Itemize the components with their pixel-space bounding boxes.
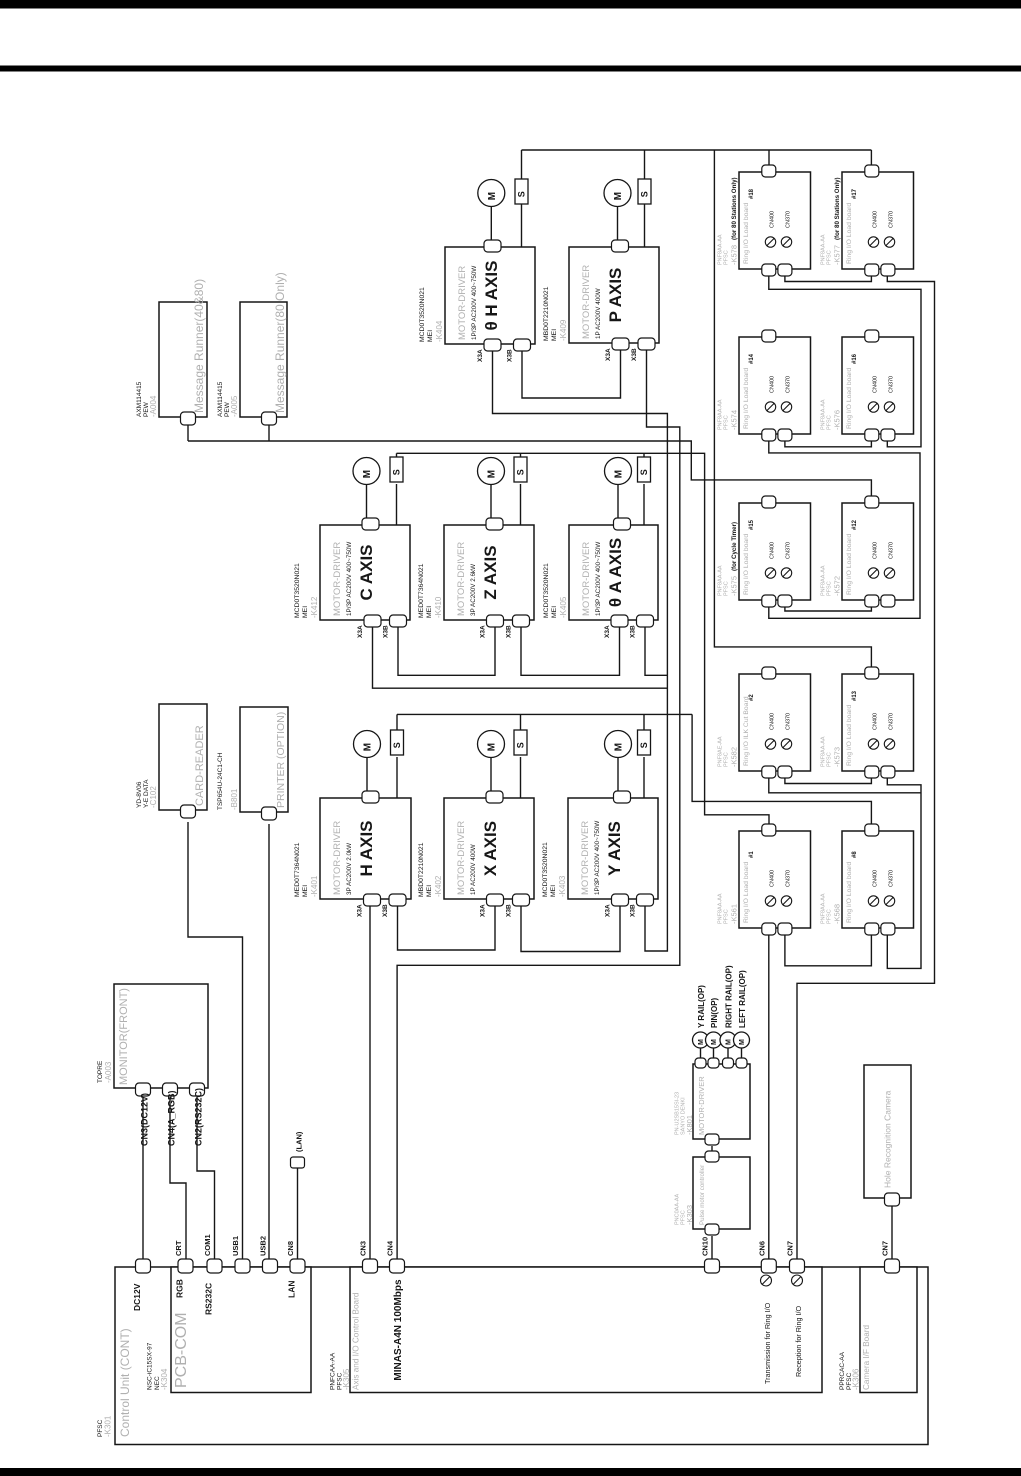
- wire: S to driver K405: [643, 484, 645, 525]
- svg-text:#2: #2: [749, 694, 755, 701]
- card reader box C102: [159, 704, 207, 810]
- svg-text:X3A: X3A: [477, 349, 484, 362]
- svg-text:CN370: CN370: [889, 376, 895, 393]
- svg-text:RS232C: RS232C: [204, 1283, 214, 1315]
- wire: S to driver K410: [520, 484, 522, 525]
- svg-text:DC12V: DC12V: [132, 1283, 142, 1311]
- svg-text:-K304: -K304: [160, 1368, 169, 1390]
- wire: pulse motor controller to CN10: [711, 1236, 713, 1260]
- svg-text:MOTOR-DRIVER: MOTOR-DRIVER: [697, 1076, 706, 1135]
- svg-text:M: M: [487, 192, 498, 200]
- wire: ring board #18 CN300 to #17 CN400 link: [785, 274, 872, 282]
- control unit (CONT) K301: [115, 1267, 928, 1445]
- ring I/O load board #18 (K578): [739, 172, 811, 269]
- svg-text:#13: #13: [852, 690, 858, 701]
- connector USB1: [235, 1259, 250, 1273]
- encoder S of -K401: [391, 730, 404, 755]
- svg-text:MED0T7364N021: MED0T7364N021: [418, 563, 425, 618]
- svg-text:CN370: CN370: [889, 713, 895, 730]
- svg-text:Message Runner(40&80): Message Runner(40&80): [192, 279, 206, 413]
- svg-text:Ring I/O Load board: Ring I/O Load board: [743, 368, 750, 429]
- wire: ring board #14 CN300 to #16 CN400 link: [785, 439, 872, 447]
- svg-text:MOTOR-DRIVER: MOTOR-DRIVER: [456, 821, 467, 895]
- motor-driver K401 (H axis): [320, 798, 411, 899]
- connector CN10: [705, 1259, 720, 1273]
- ring I/O load board #1 (K561): [739, 831, 811, 928]
- svg-text:C AXIS: C AXIS: [357, 544, 376, 600]
- motor-driver K412 (C axis): [320, 525, 410, 620]
- svg-text:-K402: -K402: [434, 875, 443, 897]
- wire: S to driver K404: [521, 204, 523, 247]
- svg-text:PPRCAC-AA: PPRCAC-AA: [839, 1351, 846, 1390]
- pulse motor controller K303: [693, 1157, 750, 1229]
- encoder S of -K409: [638, 179, 651, 204]
- wire: ring board #17 CN300 to CN7 reception line (riser x934.5): [797, 274, 935, 1260]
- motor M of -K403: [605, 731, 632, 758]
- wire: S to driver K401: [396, 757, 398, 798]
- rail motor PIN(OP): [706, 1032, 722, 1048]
- encoder S of -K404: [515, 179, 528, 204]
- printer box B801: [240, 707, 288, 812]
- svg-text:S: S: [516, 742, 526, 748]
- svg-text:PRINTER (OPTION): PRINTER (OPTION): [275, 712, 287, 808]
- rail motor RIGHT RAIL(OP): [720, 1032, 736, 1048]
- svg-text:X3A: X3A: [605, 348, 612, 361]
- svg-text:CARD-READER: CARD-READER: [194, 725, 206, 806]
- wire: hole recognition camera to camera I/F CN7: [891, 1204, 893, 1260]
- wire: motor M to driver K412: [366, 484, 368, 521]
- svg-text:MOTOR-DRIVER: MOTOR-DRIVER: [456, 542, 467, 616]
- screw terminal CN400 of -K572: [868, 568, 878, 578]
- svg-text:-K577: -K577: [833, 245, 842, 265]
- svg-text:Ring I/O Load board: Ring I/O Load board: [743, 862, 750, 923]
- wire: K404 X3A to K403 X3B network link (riser x667): [493, 350, 668, 951]
- wire: motor M to driver K402: [490, 757, 492, 794]
- camera I/F board K306: [860, 1267, 917, 1393]
- svg-text:#8: #8: [852, 851, 858, 858]
- svg-text:MEI: MEI: [550, 885, 557, 897]
- motor M of -K412: [353, 458, 380, 485]
- svg-text:PNFCAA-AA: PNFCAA-AA: [330, 1352, 337, 1390]
- rail motor Y RAIL(OP): [693, 1032, 709, 1048]
- ring I/O load board #14 (K574): [739, 337, 811, 434]
- svg-text:X3B: X3B: [630, 904, 637, 917]
- svg-text:Z AXIS: Z AXIS: [481, 545, 500, 599]
- svg-text:-K561: -K561: [730, 904, 739, 924]
- wire: S to driver K403: [643, 757, 645, 798]
- svg-text:CN4: CN4: [386, 1240, 395, 1256]
- encoder S of -K410: [514, 457, 527, 482]
- wire: ring board #1 CN400 to CN6 transmission line: [768, 935, 770, 1261]
- svg-text:Message Runner(80 Only): Message Runner(80 Only): [273, 272, 287, 413]
- connector CN7 camera: [885, 1259, 900, 1273]
- svg-text:X3B: X3B: [383, 625, 390, 638]
- svg-text:CN400: CN400: [770, 542, 776, 559]
- svg-text:CN400: CN400: [873, 713, 879, 730]
- svg-text:CN400: CN400: [873, 542, 879, 559]
- motor-driver K409 (P axis): [569, 247, 659, 343]
- message runner box A004: [159, 302, 207, 417]
- svg-text:H AXIS: H AXIS: [357, 820, 376, 876]
- svg-text:CN2(RS232C): CN2(RS232C): [194, 1088, 204, 1146]
- wire: ILK board CN300 to #13 CN400 link: [785, 777, 872, 784]
- wire: S to driver K412: [396, 484, 398, 525]
- svg-text:1P AC200V 400W: 1P AC200V 400W: [595, 288, 602, 339]
- svg-text:θ H AXIS: θ H AXIS: [482, 261, 501, 331]
- svg-text:M: M: [614, 743, 625, 751]
- svg-text:MOTOR-DRIVER: MOTOR-DRIVER: [581, 542, 592, 616]
- svg-text:X3A: X3A: [480, 904, 487, 917]
- svg-text:Ring I/O Load board: Ring I/O Load board: [846, 534, 853, 595]
- svg-text:LEFT RAIL(OP): LEFT RAIL(OP): [738, 970, 747, 1028]
- ring I/O load board #13 (K573): [842, 674, 914, 771]
- svg-text:-K582: -K582: [730, 747, 739, 767]
- ring I/O load board #15 (K575): [739, 503, 811, 600]
- screw terminal CN370 of -K574: [781, 402, 791, 412]
- svg-text:M: M: [698, 1039, 705, 1045]
- connector DC12V: [136, 1259, 151, 1273]
- svg-text:TSP654U-24C1-CH: TSP654U-24C1-CH: [217, 752, 224, 810]
- svg-text:1P/3P AC200V 400~750W: 1P/3P AC200V 400~750W: [471, 266, 478, 340]
- svg-text:-K573: -K573: [833, 747, 842, 767]
- motor-driver K403 (Y axis): [568, 798, 658, 899]
- wire: motor M to driver K401: [366, 757, 368, 794]
- screw terminal CN400 of -K561: [765, 896, 775, 906]
- svg-text:Ring I/O Load board: Ring I/O Load board: [846, 705, 853, 766]
- wire: K404 X3B to K409 X3A network link: [522, 350, 621, 398]
- svg-text:AXM114415: AXM114415: [136, 381, 143, 417]
- svg-text:CN3(DC12V): CN3(DC12V): [140, 1093, 150, 1146]
- svg-text:S: S: [516, 469, 526, 475]
- svg-text:MEI: MEI: [427, 330, 434, 342]
- screw terminal CN370 of -K578: [781, 237, 791, 247]
- svg-text:RIGHT RAIL(OP): RIGHT RAIL(OP): [725, 965, 734, 1028]
- screw terminal CN400 of -K577: [868, 237, 878, 247]
- wire: printer to USB2: [268, 824, 270, 1260]
- wire: K410 X3B to K405 X3A network link: [521, 625, 620, 675]
- svg-text:CN400: CN400: [873, 376, 879, 393]
- svg-text:USB1: USB1: [231, 1236, 240, 1256]
- svg-text:-K410: -K410: [434, 596, 443, 618]
- screw terminal: reception for ring I/O: [792, 1275, 803, 1286]
- svg-text:MED0T7364N021: MED0T7364N021: [294, 842, 301, 897]
- motor-driver K405 (theta A axis): [569, 525, 658, 620]
- svg-text:Y RAIL(OP): Y RAIL(OP): [697, 985, 706, 1028]
- ring I/O load board #12 (K572): [842, 503, 914, 600]
- motor M of -K404: [478, 180, 505, 207]
- axis and I/O control board K305: [350, 1267, 822, 1393]
- svg-text:MOTOR-DRIVER: MOTOR-DRIVER: [332, 542, 343, 616]
- svg-text:-K301: -K301: [104, 1415, 113, 1437]
- svg-text:PIN(OP): PIN(OP): [710, 997, 719, 1028]
- svg-text:MEI: MEI: [302, 885, 309, 897]
- svg-text:USB2: USB2: [259, 1236, 268, 1256]
- svg-text:-K403: -K403: [558, 875, 567, 897]
- svg-text:Reception for Ring I/O: Reception for Ring I/O: [794, 1305, 803, 1377]
- screw terminal CN400 of -K568: [868, 896, 878, 906]
- svg-text:MEI: MEI: [551, 329, 558, 341]
- svg-text:-K409: -K409: [559, 319, 568, 341]
- svg-text:-K574: -K574: [730, 410, 739, 430]
- wire: monitor CN2 to COM1: [197, 1097, 215, 1260]
- svg-text:CN370: CN370: [889, 542, 895, 559]
- svg-text:-K568: -K568: [833, 904, 842, 924]
- wire: monitor CN3 to DC12V: [142, 1097, 144, 1260]
- motor-driver K402 (X axis): [444, 798, 534, 899]
- svg-text:-K405: -K405: [559, 596, 568, 618]
- svg-text:CN3: CN3: [359, 1241, 368, 1256]
- wire: rail motor LEFT RAIL to pulse driver: [741, 1048, 743, 1060]
- encoder S of -K402: [514, 730, 527, 755]
- svg-text:CN400: CN400: [873, 870, 879, 887]
- svg-text:#17: #17: [852, 188, 858, 199]
- svg-text:-K404: -K404: [435, 320, 444, 342]
- screw terminal CN370 of -K582: [781, 739, 791, 749]
- svg-text:-K412: -K412: [310, 596, 319, 618]
- svg-text:CRT: CRT: [174, 1240, 183, 1256]
- svg-text:Control Unit (CONT): Control Unit (CONT): [118, 1328, 132, 1437]
- svg-text:-K801: -K801: [685, 1115, 694, 1135]
- svg-text:CN6: CN6: [757, 1241, 766, 1256]
- svg-text:S: S: [639, 742, 649, 748]
- svg-text:(for Cycle Timer): (for Cycle Timer): [731, 522, 738, 571]
- svg-text:S: S: [392, 742, 402, 748]
- svg-text:3P AC200V 2.0kW: 3P AC200V 2.0kW: [346, 843, 353, 895]
- wire: motor M to driver K410: [490, 484, 492, 521]
- motor-driver K404 (theta H axis): [445, 247, 535, 344]
- screw terminal CN400 of -K582: [765, 739, 775, 749]
- connector CRT / RGB: [178, 1259, 193, 1273]
- svg-text:-K578: -K578: [730, 245, 739, 265]
- svg-text:CN370: CN370: [786, 211, 792, 228]
- LAN plug: [291, 1157, 305, 1168]
- svg-text:Camera I/F Board: Camera I/F Board: [862, 1324, 871, 1390]
- svg-text:Hole Recognition Camera: Hole Recognition Camera: [883, 1090, 893, 1188]
- encoder S of -K405: [638, 457, 651, 482]
- screw terminal CN400 of -K573: [868, 739, 878, 749]
- svg-text:-K303: -K303: [685, 1205, 694, 1225]
- motor M of -K405: [605, 458, 632, 485]
- svg-text:CN7: CN7: [881, 1241, 890, 1256]
- svg-text:MEI: MEI: [551, 606, 558, 618]
- motor M of -K401: [354, 731, 381, 758]
- svg-text:1P/3P AC200V 400~750W: 1P/3P AC200V 400~750W: [346, 542, 353, 616]
- svg-text:CN370: CN370: [786, 542, 792, 559]
- wire: row3 encoder bus (S of K401/K402/K403) to ring board #8 feed: [396, 714, 398, 732]
- svg-text:#14: #14: [749, 353, 755, 364]
- svg-text:#12: #12: [852, 519, 858, 530]
- encoder S of -K403: [638, 730, 651, 755]
- connector CN4: [390, 1259, 405, 1273]
- svg-text:MCD0T3520N021: MCD0T3520N021: [294, 563, 301, 618]
- connector COM1 / RS232C: [207, 1259, 222, 1273]
- svg-text:AXM114415: AXM114415: [217, 381, 224, 417]
- svg-text:X3B: X3B: [382, 904, 389, 917]
- svg-text:P AXIS: P AXIS: [606, 268, 625, 323]
- svg-text:CN370: CN370: [786, 376, 792, 393]
- svg-text:-K305: -K305: [342, 1368, 351, 1390]
- wire: ring board #1 CN300 to #8 CN400 link: [785, 935, 872, 966]
- wire: rail motor PIN to pulse driver: [713, 1048, 715, 1060]
- svg-text:X3B: X3B: [506, 625, 513, 638]
- svg-text:Transmission for Ring I/O: Transmission for Ring I/O: [763, 1302, 772, 1384]
- screw terminal: transmission for ring I/O: [761, 1275, 772, 1286]
- svg-text:-K572: -K572: [833, 576, 842, 596]
- rail motor LEFT RAIL(OP): [734, 1032, 750, 1048]
- svg-text:M: M: [711, 1039, 718, 1045]
- connector CN3: [363, 1259, 378, 1273]
- motor M of -K410: [478, 458, 505, 485]
- svg-text:X3B: X3B: [631, 348, 638, 361]
- svg-text:(LAN): (LAN): [295, 1131, 304, 1152]
- svg-text:M: M: [487, 743, 498, 751]
- svg-text:1P AC200V 400W: 1P AC200V 400W: [470, 844, 477, 895]
- svg-text:Axis and I/O Control Board: Axis and I/O Control Board: [352, 1292, 361, 1390]
- svg-text:X3B: X3B: [506, 904, 513, 917]
- ring I/O load board #8 (K568): [842, 831, 914, 928]
- svg-text:YD-8V06: YD-8V06: [136, 781, 143, 808]
- svg-text:MCD0T3520N021: MCD0T3520N021: [542, 842, 549, 897]
- ring I/O load board #16 (K576): [842, 337, 914, 434]
- svg-text:-C102: -C102: [149, 786, 158, 808]
- svg-text:MOTOR-DRIVER: MOTOR-DRIVER: [580, 821, 591, 895]
- screw terminal CN370 of -K561: [781, 896, 791, 906]
- svg-text:CN10: CN10: [701, 1237, 710, 1256]
- svg-text:MONITOR(FRONT): MONITOR(FRONT): [118, 988, 130, 1085]
- monitor (front) box A003: [114, 984, 208, 1088]
- screw terminal CN400 of -K575: [765, 568, 775, 578]
- wire: motor M to driver K405: [617, 484, 619, 521]
- wire: message runner bus to ring board #12 feed: [187, 421, 189, 441]
- wire: pulse motor driver to pulse motor controller: [711, 1146, 713, 1152]
- wire: motor M to driver K404: [490, 206, 492, 243]
- svg-text:-B801: -B801: [230, 788, 239, 810]
- svg-text:MEI: MEI: [426, 606, 433, 618]
- svg-text:RGB: RGB: [175, 1279, 185, 1298]
- wire: S to driver K409: [644, 204, 646, 247]
- svg-text:X3A: X3A: [605, 904, 612, 917]
- svg-text:CN400: CN400: [873, 211, 879, 228]
- wire: motor M to driver K409: [617, 206, 619, 243]
- svg-text:M: M: [726, 1039, 733, 1045]
- wire: K402 X3B to K403 X3A network link: [521, 905, 620, 952]
- connector CN6: [761, 1259, 776, 1273]
- svg-text:X3A: X3A: [604, 625, 611, 638]
- wire: rail motor RIGHT RAIL to pulse driver: [727, 1048, 729, 1060]
- svg-text:CN400: CN400: [770, 713, 776, 730]
- svg-text:X3B: X3B: [507, 349, 514, 362]
- wire: K401 X3A to CN3: [369, 905, 371, 1260]
- svg-text:-A005: -A005: [230, 395, 239, 417]
- screw terminal CN400 of -K576: [868, 402, 878, 412]
- wire: K409 X3B to CN4 riser (x680): [397, 350, 680, 1260]
- svg-text:-A004: -A004: [149, 395, 158, 417]
- svg-text:MOTOR-DRIVER: MOTOR-DRIVER: [332, 821, 343, 895]
- connector USB2: [263, 1259, 278, 1273]
- wire: ring board #18 CN400 to #16 CN300 link (riser x921): [769, 274, 921, 447]
- svg-text:M: M: [739, 1039, 746, 1045]
- svg-text:S: S: [392, 469, 402, 475]
- svg-text:#15: #15: [749, 519, 755, 530]
- svg-text:CN400: CN400: [770, 211, 776, 228]
- svg-text:#18: #18: [749, 188, 755, 199]
- svg-text:M: M: [362, 470, 373, 478]
- svg-text:S: S: [517, 191, 527, 197]
- svg-text:Y AXIS: Y AXIS: [605, 821, 624, 876]
- svg-text:MBD0T2210N021: MBD0T2210N021: [418, 842, 425, 897]
- page footer bar: [0, 1468, 1021, 1476]
- svg-text:M: M: [363, 743, 374, 751]
- svg-text:CN370: CN370: [786, 713, 792, 730]
- wire: row1 encoder bus (S of K404/K409) to ring board #13 feed: [521, 150, 523, 179]
- svg-text:#1: #1: [749, 851, 755, 858]
- svg-text:3P AC200V 2.6kW: 3P AC200V 2.6kW: [470, 564, 477, 616]
- wire: LAN plug to CN8: [297, 1168, 299, 1260]
- svg-text:CN4(A_RGB): CN4(A_RGB): [167, 1090, 177, 1146]
- page header rule: [0, 66, 1021, 72]
- svg-text:X3A: X3A: [357, 904, 364, 917]
- svg-text:S: S: [639, 469, 649, 475]
- svg-text:1P/3P AC200V 400~750W: 1P/3P AC200V 400~750W: [595, 542, 602, 616]
- page header bar: [0, 0, 1021, 9]
- screw terminal CN370 of -K572: [884, 568, 894, 578]
- PCB-COM board K304: [171, 1267, 311, 1393]
- svg-text:MBD0T2210N021: MBD0T2210N021: [543, 286, 550, 341]
- hole recognition camera: [864, 1065, 911, 1198]
- svg-text:X3B: X3B: [630, 625, 637, 638]
- svg-text:θ A AXIS: θ A AXIS: [606, 538, 625, 607]
- wire: motor M to driver K403: [617, 757, 619, 794]
- svg-text:MEI: MEI: [426, 885, 433, 897]
- svg-text:S: S: [640, 191, 650, 197]
- svg-text:-A003: -A003: [104, 1061, 113, 1083]
- svg-text:CN370: CN370: [889, 211, 895, 228]
- wire: K401 X3B to K402 X3A network link: [398, 905, 496, 950]
- svg-text:X AXIS: X AXIS: [481, 821, 500, 876]
- svg-text:Ring I/O Load board: Ring I/O Load board: [743, 534, 750, 595]
- svg-text:MOTOR-DRIVER: MOTOR-DRIVER: [581, 265, 592, 339]
- svg-text:COM1: COM1: [203, 1234, 212, 1256]
- svg-text:M: M: [613, 192, 624, 200]
- motor M of -K409: [604, 180, 631, 207]
- svg-text:Ring I/O Load board: Ring I/O Load board: [846, 862, 853, 923]
- svg-text:MINAS-A4N 100Mbps: MINAS-A4N 100Mbps: [393, 1279, 404, 1381]
- svg-text:(for 80 Stations Only): (for 80 Stations Only): [834, 177, 841, 240]
- screw terminal CN370 of -K577: [884, 237, 894, 247]
- svg-text:X3A: X3A: [357, 625, 364, 638]
- svg-text:-K576: -K576: [833, 410, 842, 430]
- screw terminal CN370 of -K576: [884, 402, 894, 412]
- svg-text:LAN: LAN: [287, 1281, 297, 1298]
- svg-text:MEI: MEI: [302, 606, 309, 618]
- wire: monitor CN4 to CRT: [170, 1097, 186, 1260]
- svg-text:Ring I/O ILK Cut Board: Ring I/O ILK Cut Board: [743, 696, 750, 766]
- wire: S to driver K402: [520, 757, 522, 798]
- wire: K405 X3B stub to riser x667: [645, 625, 667, 675]
- screw terminal CN370 of -K575: [781, 568, 791, 578]
- svg-text:MCD0T3520N021: MCD0T3520N021: [419, 287, 426, 342]
- svg-text:TOPRE: TOPRE: [97, 1060, 104, 1083]
- screw terminal CN370 of -K568: [884, 896, 894, 906]
- wire: #13 CN300 down riser x921 to #8 CN300: [887, 777, 921, 968]
- svg-text:M: M: [487, 470, 498, 478]
- svg-text:CN400: CN400: [770, 376, 776, 393]
- motor-driver K410 (Z axis): [444, 525, 534, 620]
- wire: rail motor Y RAIL to pulse driver: [700, 1048, 702, 1060]
- message runner box A005: [240, 302, 287, 417]
- svg-text:MCD0T3520N021: MCD0T3520N021: [543, 563, 550, 618]
- svg-text:#16: #16: [852, 353, 858, 364]
